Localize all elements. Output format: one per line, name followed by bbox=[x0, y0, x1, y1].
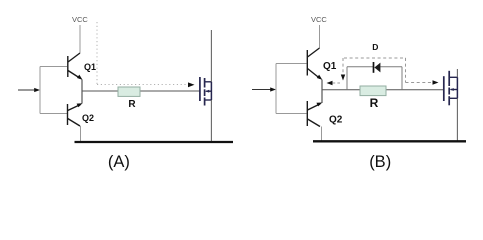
wire Q2 base (A) bbox=[40, 113, 67, 115]
dashed loop right vertical (B) bbox=[405, 58, 407, 83]
Q2 collector arrowhead (B) bbox=[316, 103, 322, 107]
wire Q1 base (B) bbox=[276, 63, 307, 65]
wire base bus vertical (B) bbox=[275, 64, 277, 114]
dashed left arrowhead (B) bbox=[327, 81, 333, 85]
svg-text:R: R bbox=[370, 96, 379, 110]
body stub bbox=[451, 89, 458, 91]
svg-text:(B): (B) bbox=[369, 153, 391, 171]
symbol right conductor bbox=[456, 77, 458, 98]
svg-text:Q2: Q2 bbox=[82, 113, 94, 123]
channel segments bbox=[204, 78, 206, 88]
wire base bus vertical (A) bbox=[39, 67, 41, 114]
dashed right arrowhead (B) bbox=[433, 80, 439, 84]
svg-text:D: D bbox=[372, 42, 378, 52]
input arrowhead (B) bbox=[270, 87, 276, 91]
svg-text:VCC: VCC bbox=[311, 15, 327, 24]
svg-text:Q1: Q1 bbox=[323, 61, 337, 72]
drain stub bbox=[449, 76, 458, 78]
wire diode branch right vertical (B) bbox=[401, 67, 403, 90]
wire diode branch top right (B) bbox=[381, 66, 403, 68]
ground rail (A) bbox=[75, 141, 234, 143]
resistor R (B) bbox=[360, 86, 386, 96]
dashed loop down arrowhead (B) bbox=[341, 75, 345, 81]
svg-text:(A): (A) bbox=[108, 153, 130, 171]
wire Q2 base (B) bbox=[276, 113, 307, 115]
body stub bbox=[206, 90, 212, 92]
wire emitter/collector node vertical (B) bbox=[321, 80, 323, 104]
diode D (B) bbox=[373, 62, 375, 73]
wire diode branch top left (B) bbox=[347, 66, 374, 68]
dashed loop top (B) bbox=[344, 57, 406, 59]
body arrowhead (A) bbox=[205, 90, 209, 93]
ground rail (B) bbox=[313, 140, 466, 142]
drain stub bbox=[205, 81, 212, 83]
svg-text:Q2: Q2 bbox=[329, 114, 343, 125]
dotted current path horizontal (A) bbox=[97, 84, 189, 86]
wire gate drive line (B) bbox=[322, 89, 443, 91]
wire gate drive line (A) bbox=[82, 90, 200, 92]
MOSFET M1 (A) bbox=[200, 77, 212, 106]
svg-text:R: R bbox=[128, 99, 136, 110]
source stub bbox=[449, 97, 458, 99]
dashed loop left vertical (B) bbox=[342, 58, 344, 76]
transistor Q2 (B) bbox=[307, 101, 320, 127]
dotted path arrowhead (A) bbox=[188, 82, 195, 87]
wire input line (A) bbox=[18, 89, 37, 91]
MOSFET M2 (B) bbox=[444, 71, 458, 106]
wire drain up (B) bbox=[456, 69, 458, 77]
wire Q1 base (A) bbox=[40, 66, 67, 68]
wire drain up (A) bbox=[210, 30, 212, 82]
transistor Q1 (A) bbox=[68, 53, 81, 79]
dashed loop right horizontal (B) bbox=[406, 82, 434, 84]
wire source down (B) bbox=[456, 98, 458, 141]
Q1 emitter arrowhead (A) bbox=[77, 75, 83, 80]
gate bar bbox=[199, 77, 201, 101]
channel segments bbox=[448, 71, 450, 86]
wire input line (B) bbox=[252, 89, 273, 91]
Q2 collector arrowhead (A) bbox=[77, 103, 83, 107]
gate bar bbox=[443, 76, 445, 101]
svg-text:Q1: Q1 bbox=[84, 62, 96, 72]
dotted current path vertical (A) bbox=[96, 22, 98, 85]
source stub bbox=[205, 99, 212, 101]
resistor R (A) bbox=[118, 87, 140, 96]
wire emitter/collector node vertical (A) bbox=[81, 80, 83, 104]
svg-text:VCC: VCC bbox=[72, 15, 88, 24]
wire diode branch left vertical (B) bbox=[346, 67, 348, 90]
wire VCC vertical (B) bbox=[319, 25, 321, 48]
input arrowhead (A) bbox=[34, 88, 40, 92]
symbol right conductor bbox=[210, 82, 212, 100]
wire source down (A) bbox=[210, 100, 212, 142]
Q1 emitter arrowhead (B) bbox=[317, 75, 323, 80]
transistor Q2 (A) bbox=[68, 104, 81, 126]
wire Q2 emitter to ground (B) bbox=[321, 127, 323, 142]
transistor Q1 (B) bbox=[307, 48, 320, 79]
body arrowhead (B) bbox=[450, 88, 454, 91]
dashed left arrow segment (B) bbox=[331, 82, 340, 84]
wire Q2 emitter to ground (A) bbox=[80, 126, 82, 142]
wire VCC vertical (A) bbox=[79, 25, 81, 53]
